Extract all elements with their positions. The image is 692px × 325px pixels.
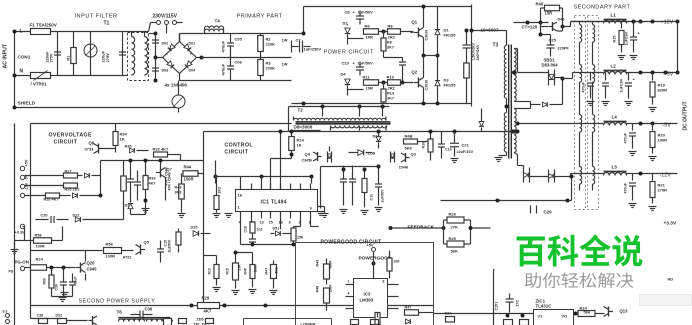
label D8=3006 [293, 125, 321, 131]
svg-text:56R: 56R [584, 311, 591, 315]
svg-text:120K: 120K [329, 284, 333, 293]
svg-text:R40: R40 [536, 2, 544, 7]
wire sps top [31, 250, 103, 252]
svg-text:27K: 27K [451, 225, 458, 230]
svg-text:D03: D03 [162, 69, 169, 73]
svg-text:470uF: 470uF [624, 182, 628, 193]
svg-text:C06: C06 [235, 60, 243, 65]
resistor R36 [176, 229, 181, 253]
svg-text:220K: 220K [266, 42, 276, 47]
capacitor C9 snubber [463, 29, 481, 63]
svg-text:CIRCUIT: CIRCUIT [54, 140, 78, 146]
capacitor C25 [349, 166, 356, 206]
resistor R26 47K [444, 212, 471, 245]
svg-text:CONTROL: CONTROL [225, 143, 254, 149]
wire to T3 top [470, 29, 507, 46]
svg-text:100R: 100R [106, 254, 116, 259]
transformer T3 primary winding [504, 46, 506, 99]
svg-text:10R: 10R [366, 35, 373, 40]
svg-text:220PF: 220PF [558, 47, 570, 51]
svg-text:275V: 275V [50, 53, 54, 62]
svg-text:CT=120: CT=120 [522, 25, 538, 30]
terminal +5V pad [20, 159, 28, 171]
svg-text:470uF: 470uF [221, 63, 226, 75]
svg-text:R25: R25 [449, 236, 457, 241]
svg-text:C3039: C3039 [425, 30, 429, 41]
svg-text:820R: 820R [658, 88, 668, 93]
svg-text:R44: R44 [184, 165, 192, 170]
svg-text:D15: D15 [191, 226, 198, 230]
ground sps1 [52, 297, 73, 302]
svg-text:R25 2K2: R25 2K2 [65, 188, 80, 192]
resistor R4B 5K6 [404, 134, 429, 151]
node N terminal [13, 69, 24, 78]
resistor R43b 680R [316, 259, 333, 285]
diode D35 [406, 319, 411, 324]
transistor Q4 [302, 152, 322, 163]
label 47K C946 [165, 167, 169, 185]
svg-text:220K: 220K [266, 66, 276, 71]
svg-text:L4: L4 [612, 115, 618, 120]
label C946 [399, 165, 409, 170]
ground ov1 [142, 201, 150, 213]
rectifier D20 pair [518, 166, 549, 183]
wire pg to tl431 [434, 313, 494, 315]
wire T3 sec taps [518, 49, 531, 166]
wire ctl tail [318, 207, 325, 214]
box powergood [296, 243, 434, 325]
diode D15 [191, 226, 211, 237]
terminal +3.3V pad [15, 224, 25, 234]
svg-text:R15: R15 [226, 268, 230, 274]
wire ov right [131, 155, 181, 215]
svg-text:LOWER: LOWER [301, 322, 316, 325]
svg-text:LM393: LM393 [360, 298, 374, 303]
transformer T3 secondary winding [512, 49, 518, 155]
svg-text:PG-ON: PG-ON [15, 260, 29, 265]
label CON1 [18, 55, 31, 60]
capacitor C46 [624, 124, 637, 156]
label 27C [516, 300, 520, 307]
varistor VTR01 [31, 71, 51, 87]
choke dashed box 1 [575, 16, 586, 210]
svg-text:D2: D2 [343, 21, 349, 26]
resistor R56 100R [104, 242, 134, 259]
inductor L1 [604, 13, 641, 24]
resistor R48 120K [316, 284, 333, 311]
small box B1 [164, 319, 172, 325]
svg-text:+12V: +12V [661, 20, 674, 26]
resistor R24b [25, 257, 61, 271]
svg-text:+5V: +5V [664, 72, 674, 78]
wire zic right [574, 312, 579, 316]
svg-text:D40: D40 [558, 18, 565, 22]
resistor R3 220K [258, 58, 288, 81]
ground R58 [11, 241, 25, 254]
label SHIELD [18, 101, 36, 107]
inductor L3 [604, 165, 678, 176]
wire HV bottom rail [292, 102, 472, 106]
svg-text:L2: L2 [611, 64, 617, 69]
label FEEDBACK [408, 225, 435, 231]
resistor R43 3R3 [175, 174, 186, 218]
svg-text:-12V: -12V [660, 173, 672, 179]
IC ZIC1 body [534, 310, 574, 325]
svg-text:INPUT FILTER: INPUT FILTER [75, 14, 118, 20]
svg-text:+5V: +5V [367, 244, 374, 248]
svg-text:R28 4K7: R28 4K7 [44, 198, 59, 202]
wire primary mid rail [202, 57, 292, 59]
transistor Q13 [604, 307, 629, 317]
svg-text:R47: R47 [405, 306, 412, 310]
resistor R13 3K7 [381, 83, 394, 104]
svg-text:+: + [190, 52, 193, 57]
zener ZD8 [349, 150, 376, 156]
capacitor C05 470uF [221, 34, 243, 58]
wire mid bus2 [321, 166, 379, 168]
transistor Q5 [136, 240, 150, 255]
svg-text:470uF: 470uF [582, 81, 586, 92]
svg-text:15K: 15K [297, 236, 304, 240]
svg-text:56K: 56K [451, 249, 458, 254]
svg-text:680R: 680R [329, 260, 333, 269]
ground sps2 [61, 293, 69, 297]
svg-text:R56: R56 [106, 242, 114, 247]
transistor Q3 [401, 152, 417, 163]
svg-text:15R: 15R [545, 11, 553, 16]
resistor R8 2R2 [382, 24, 414, 40]
transformer T1 label [104, 21, 110, 27]
label POWER CIRCUIT [324, 50, 374, 56]
svg-text:CON1: CON1 [18, 55, 31, 60]
resistor R25b 2K2 [25, 183, 80, 192]
label -5V [663, 123, 672, 129]
IC1 top pins [241, 184, 311, 190]
small box X2 [520, 320, 529, 325]
capacitor C7 [292, 38, 322, 53]
wire T2 feed [289, 105, 390, 132]
svg-text:R47: R47 [265, 268, 269, 275]
svg-text:OVERVOLTAGE: OVERVOLTAGE [49, 133, 92, 139]
wire fb right [469, 226, 491, 230]
label SECOND POWER SUPPLY [79, 299, 156, 305]
switch SW1 [151, 21, 183, 34]
resistor R29 4K7 [198, 296, 220, 314]
diode D33 [179, 319, 214, 324]
svg-text:R27: R27 [65, 170, 72, 174]
svg-text:15: 15 [269, 221, 273, 225]
transistor Q7 [156, 161, 173, 186]
capacitor C12 [438, 132, 452, 159]
svg-text:C10: C10 [342, 61, 350, 66]
terminal -5V pad [20, 174, 28, 180]
IC3 LM393 body [354, 279, 388, 318]
ground ctrl1 [225, 214, 233, 218]
label HD right [668, 278, 674, 282]
wire choke feed +5 [563, 73, 604, 79]
transformer T2 label [298, 108, 304, 113]
svg-text:13: 13 [260, 221, 264, 225]
bridge diode D02 [162, 42, 176, 52]
svg-text:1uF/50V: 1uF/50V [381, 189, 385, 203]
svg-text:D02: D02 [162, 42, 169, 46]
diode D22b [73, 214, 101, 223]
svg-text:SHIELD: SHIELD [18, 101, 36, 107]
bridge frame [158, 34, 204, 81]
wire drive bus [292, 130, 520, 134]
wire r-row mid [241, 219, 296, 247]
label OVERVOLTAGE CIRCUIT [49, 133, 92, 146]
svg-text:3K7: 3K7 [387, 46, 394, 50]
label PRIMARY PART [237, 14, 283, 20]
svg-text:D83-004: D83-004 [542, 63, 559, 68]
svg-text:C13: C13 [445, 148, 452, 152]
svg-text:R4B: R4B [405, 134, 413, 139]
transformer T3 primary2 winding [495, 98, 509, 161]
svg-text:C18: C18 [244, 226, 248, 232]
resistor R56b 10K [387, 251, 400, 279]
wire shield [13, 106, 177, 110]
svg-text:C36: C36 [145, 307, 153, 312]
svg-text:C21: C21 [462, 143, 470, 148]
capacitor C50 [506, 289, 514, 313]
resistor R50 [43, 266, 55, 297]
capacitor C32 [351, 320, 379, 325]
svg-text:R9: R9 [365, 24, 371, 29]
svg-text:C25: C25 [549, 38, 557, 43]
resistor R34 1K [113, 124, 128, 153]
resistor R47 4K7 [405, 306, 434, 316]
wire pg bottom rail [31, 304, 434, 308]
wire choke feed +12 [571, 21, 604, 23]
svg-text:3R3: 3R3 [175, 191, 182, 195]
svg-text:FR155: FR155 [444, 83, 457, 88]
label R44 150R [184, 165, 192, 170]
svg-text:8: 8 [383, 280, 385, 284]
svg-text:CIRCUIT: CIRCUIT [225, 150, 249, 156]
svg-text:470uF: 470uF [624, 132, 628, 143]
svg-text:6.3: 6.3 [3, 310, 8, 314]
diode D4b [341, 72, 364, 96]
label SECONDARY PART [574, 5, 631, 11]
svg-text:SECONDARY PART: SECONDARY PART [574, 5, 631, 11]
svg-text:R33: R33 [149, 177, 156, 181]
svg-text:R1: R1 [67, 56, 71, 61]
svg-text:275V: 275V [105, 53, 110, 63]
svg-text:100R: 100R [36, 245, 45, 249]
ZIC1 pin labels [538, 314, 568, 319]
svg-text:R15: R15 [613, 36, 617, 43]
terminal PG pad [9, 266, 25, 273]
resistor R15 [226, 253, 242, 295]
svg-text:/ VTR01: / VTR01 [31, 82, 48, 87]
svg-text:Q13: Q13 [620, 309, 629, 314]
svg-text:R6: R6 [387, 41, 392, 45]
svg-text:D04: D04 [189, 69, 196, 73]
capacitor C1 [46, 32, 62, 76]
svg-text:DC OUTPUT: DC OUTPUT [683, 101, 689, 130]
svg-text:VO: VO [562, 314, 568, 319]
bottom terminal row [3, 310, 10, 324]
capacitor C21 22uF/16V [450, 132, 474, 163]
zener ZD1 [123, 196, 134, 215]
svg-text:1K: 1K [297, 143, 302, 148]
svg-text:C8: C8 [345, 10, 351, 15]
svg-text:Q2: Q2 [412, 70, 418, 75]
capacitor C40 220PF [541, 35, 570, 57]
svg-text:270R: 270R [658, 188, 668, 193]
svg-text:C3039: C3039 [425, 80, 429, 91]
svg-text:Q5: Q5 [144, 240, 150, 245]
wire r-row top2 [234, 251, 253, 257]
capacitor C41 [613, 22, 626, 60]
watermark gray text [525, 272, 634, 288]
svg-text:C151: C151 [495, 302, 499, 311]
resistor R58 100R [23, 227, 63, 249]
svg-text:R43: R43 [316, 260, 320, 267]
svg-text:D4: D4 [341, 72, 347, 77]
capacitor C45 + [620, 73, 636, 106]
transformer T3 label [493, 43, 499, 49]
svg-text:HD: HD [668, 278, 674, 282]
svg-text:3K7: 3K7 [387, 97, 394, 101]
label +5V [664, 72, 674, 78]
transistor Q1 [411, 5, 429, 56]
svg-text:1: 1 [348, 280, 350, 284]
resistor R40 15R [536, 2, 563, 23]
vertical 47K C946 labels [168, 172, 172, 190]
label 220uF 275V [101, 50, 111, 62]
watermark whiteout [495, 214, 663, 294]
wire AC L input rail [15, 32, 149, 108]
rectifier SBD1 [518, 70, 563, 86]
label PG-ON [15, 260, 29, 265]
wire ov bus [99, 159, 204, 198]
svg-text:L3: L3 [612, 165, 618, 170]
box tl431 section [494, 270, 497, 325]
svg-text:Q6: Q6 [89, 141, 95, 146]
capacitor C06 470uF [221, 58, 243, 81]
wire left bus [101, 206, 124, 220]
svg-text:Q4: Q4 [305, 152, 311, 157]
resistor R16 [422, 132, 434, 161]
label +12V [661, 20, 674, 26]
transistor D40 [541, 18, 565, 32]
resistor R11 10R [363, 75, 388, 91]
bridge diode D03 [162, 61, 175, 73]
svg-text:R10: R10 [387, 75, 395, 80]
svg-text:L: L [20, 29, 23, 35]
label CT=120 [514, 21, 549, 37]
capacitor C16 [122, 161, 135, 196]
svg-text:R32 4K7: R32 4K7 [153, 147, 170, 152]
terminal +5V pg [367, 244, 376, 252]
wire HV top rail [292, 7, 472, 36]
svg-text:C946: C946 [399, 165, 409, 170]
diode D5 [327, 147, 331, 163]
svg-text:C30: C30 [55, 284, 59, 290]
resistor R47b [265, 261, 279, 295]
capacitor C20 [36, 214, 69, 224]
svg-text:AC INPUT: AC INPUT [3, 43, 9, 68]
capacitor C3 [149, 32, 160, 60]
svg-text:5K1: 5K1 [275, 267, 279, 273]
svg-text:Q1: Q1 [412, 20, 418, 25]
resistor R46 100K [244, 257, 258, 294]
bridge diode D04 [185, 61, 195, 73]
svg-text:D8=3006: D8=3006 [294, 125, 313, 130]
wire feedback [389, 226, 446, 230]
svg-text:C05: C05 [235, 37, 243, 42]
svg-text:C3456: C3456 [302, 159, 313, 163]
svg-text:D14: D14 [373, 135, 381, 139]
transformer T6 label [117, 310, 123, 315]
resistor R27 [25, 170, 83, 179]
diode D2 [343, 21, 364, 45]
svg-text:T1: T1 [104, 21, 110, 27]
svg-text:100K: 100K [254, 264, 258, 273]
svg-text:PRIMARY PART: PRIMARY PART [237, 14, 283, 20]
svg-text:+3.3V: +3.3V [15, 231, 25, 235]
svg-text:1uF/16V: 1uF/16V [625, 31, 629, 45]
watermark green text [517, 235, 643, 267]
wire pin16 drop [280, 219, 282, 230]
svg-text:220P/2KV: 220P/2KV [476, 44, 480, 61]
svg-text:R35: R35 [125, 145, 132, 149]
svg-text:C38: C38 [37, 314, 44, 318]
svg-text:3: 3 [289, 221, 291, 225]
wire N input rail [15, 75, 149, 77]
svg-text:100R: 100R [658, 138, 668, 143]
wire pin3 drop [311, 219, 319, 227]
label C151 [495, 302, 499, 311]
fuse F1 T5A/250V [30, 23, 58, 35]
svg-text:2R2: 2R2 [388, 35, 396, 40]
inductor L4 [604, 115, 678, 126]
wire tl431 bus [494, 314, 534, 318]
wire +12V line [563, 20, 680, 27]
svg-text:2R2: 2R2 [388, 86, 396, 91]
svg-text:F1 T5A/250V: F1 T5A/250V [30, 23, 58, 28]
inductor L2 [604, 64, 680, 75]
thermistor TH2 [172, 81, 185, 113]
svg-text:T4: T4 [215, 19, 221, 24]
thermistor TH1 [84, 32, 97, 76]
svg-text:1W: 1W [282, 62, 288, 67]
resistor R19 820R [649, 73, 668, 112]
label 230V/115V [153, 14, 178, 20]
svg-text:R46: R46 [244, 268, 248, 274]
svg-text:T6: T6 [117, 310, 123, 315]
svg-text:C945: C945 [87, 267, 98, 272]
label -12V [660, 173, 672, 179]
svg-text:4K7: 4K7 [149, 182, 156, 186]
wire sec return [441, 175, 574, 203]
choke windings [580, 22, 595, 191]
resistor R25 56K [444, 220, 471, 254]
svg-text:T3: T3 [493, 43, 499, 49]
resistor R45 2K2 [213, 177, 222, 218]
box lower unit [244, 319, 332, 325]
resistor R51 15K [291, 227, 304, 245]
ground drv [317, 167, 325, 216]
capacitor C2 [119, 32, 126, 76]
svg-text:4K7: 4K7 [204, 309, 212, 314]
svg-text:D01: D01 [189, 42, 196, 46]
svg-text:1uF/250V: 1uF/250V [304, 47, 322, 52]
label ZIC1 TL431C [536, 299, 553, 309]
capacitor C38 [37, 314, 48, 324]
